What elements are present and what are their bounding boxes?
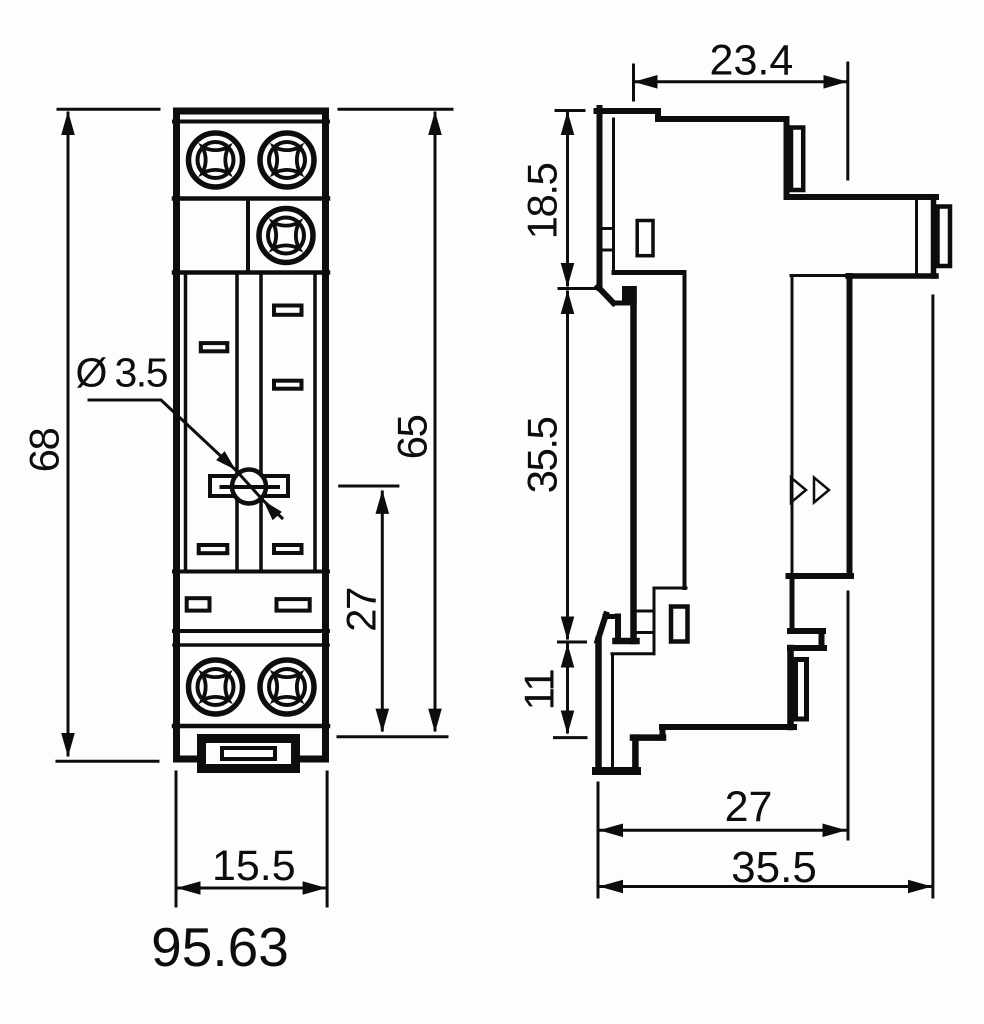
middle channel vertical x261 [259, 273, 263, 572]
svg-text:27: 27 [725, 783, 773, 831]
svg-text:15.5: 15.5 [212, 842, 296, 890]
svg-text:35.5: 35.5 [731, 843, 817, 892]
hook right block [622, 286, 637, 306]
leader arrowhead lower-right [259, 496, 282, 520]
11 bottom extension [555, 736, 587, 739]
terminal block bottom thin [791, 274, 848, 277]
slot S4 bottom-left of middle section [199, 545, 228, 553]
dimension line 68 [67, 113, 70, 755]
18.5/35.5 boundary extension [559, 287, 596, 290]
section line below screw row 2 [174, 270, 328, 275]
side top edge right [658, 116, 787, 122]
bottom 27 extension right [847, 592, 850, 839]
foot outer wall [595, 640, 602, 771]
svg-text:95.63: 95.63 [151, 916, 289, 978]
extension line bottom-left [57, 760, 158, 763]
right wall mid vertical [847, 276, 853, 576]
slot S7 lower section right [277, 599, 310, 611]
screw B row1 right [260, 133, 314, 187]
18.5 top extension [556, 109, 584, 112]
screw D row3 left [189, 660, 243, 714]
side left wall chamfer [598, 287, 614, 303]
direction arrow triangle 1 [791, 478, 806, 503]
section line y645 [174, 643, 328, 647]
right wall top vertical [784, 119, 790, 197]
foot inner thin vertical [611, 654, 614, 766]
step y733.5 [633, 734, 663, 741]
hook bottom [614, 301, 628, 306]
slot S3 right lower [274, 381, 302, 389]
side top edge left [597, 108, 659, 114]
leader line for hole diameter [89, 400, 282, 518]
foot hook bottom bar [616, 638, 637, 645]
extension line 65 bottom [338, 735, 447, 738]
svg-text:23.4: 23.4 [710, 37, 794, 85]
step up x662 [660, 727, 666, 738]
dimension line 65 [434, 113, 437, 730]
inner step vertical x654 [653, 589, 656, 654]
bottom tab slot [796, 660, 807, 720]
11 dimension line [566, 645, 569, 732]
23.4 extension left [632, 65, 635, 100]
step y576 [789, 573, 852, 579]
hole centerline dash [222, 485, 279, 489]
side top step [655, 111, 661, 119]
foot chamfer diagonal [598, 615, 607, 642]
middle channel vertical x237 [235, 273, 239, 572]
inner line near right end [915, 200, 918, 273]
bottom 35.5 dimension line [600, 885, 931, 888]
screw C row2 right [259, 209, 313, 263]
bottom tab wall [787, 648, 794, 727]
svg-text:11: 11 [516, 670, 563, 711]
screw E row3 right [260, 660, 314, 714]
terminal block right edge [931, 197, 937, 276]
23.4 extension right [846, 63, 849, 179]
cross slot bottom edges [210, 494, 288, 498]
side left outer wall (top) [597, 108, 603, 288]
top-right tab [791, 128, 803, 191]
notch top y631 [790, 628, 823, 634]
bottom DIN tab: outer black [197, 734, 300, 773]
mid-left main wall [630, 290, 637, 642]
foot right edge [632, 738, 639, 771]
foot bottom [596, 767, 637, 775]
svg-text:27: 27 [338, 588, 385, 632]
dimension 23.4 line [636, 80, 845, 83]
svg-text:68: 68 [21, 429, 68, 473]
vertical below step [790, 576, 795, 629]
svg-text:65: 65 [389, 416, 436, 460]
top band line [174, 120, 328, 124]
svg-text:35.5: 35.5 [519, 417, 566, 493]
inner horizontal y653.8 [612, 652, 654, 655]
front view body outline [177, 111, 326, 759]
18.5 dimension line [566, 113, 569, 285]
svg-text:3.5: 3.5 [115, 350, 168, 396]
35.5 dimension line [566, 292, 569, 638]
bottom DIN tab slot [222, 748, 275, 759]
cross slot top edges [210, 474, 288, 478]
slot S5 bottom-right of middle section [274, 545, 302, 553]
extension line 27 top [340, 485, 398, 488]
foot hook right [615, 617, 621, 642]
terminal block top edge [787, 194, 937, 200]
screw A row1 left [189, 133, 243, 187]
bottom DIN tab: inner white [206, 743, 291, 764]
direction arrow triangle 2 [814, 478, 829, 503]
leader arrowhead upper-left [216, 451, 240, 474]
clip rect R2 [671, 607, 688, 642]
slot S1 left middle [201, 343, 228, 351]
section line above lower slots [174, 570, 328, 574]
right end tab [938, 207, 951, 267]
35.5/11 boundary extension [559, 641, 586, 644]
clip rect R1 [637, 221, 653, 256]
inner long vertical x683 [683, 273, 687, 589]
foot hook top [605, 614, 619, 619]
dimension 15.5 extension lines [176, 772, 327, 906]
middle section vertical x185.5 [184, 273, 188, 572]
dimension line 27 left [381, 492, 384, 730]
inner right thin vertical [791, 276, 794, 574]
cross slot sides [210, 476, 288, 496]
extension line top-right [339, 108, 452, 111]
bottom 35.5 extension right [931, 296, 934, 897]
middle section vertical x315 [313, 273, 317, 572]
bottom 27 dimension line [600, 829, 845, 832]
slot S6 lower section left [187, 598, 210, 610]
bottom edge y725 [662, 724, 794, 730]
section line below screw row 1 [174, 196, 328, 201]
inner horizontal y588 [654, 587, 686, 590]
slot S2 right upper [274, 306, 302, 315]
section line above bottom band [174, 724, 328, 729]
wall ticks bottom-left [637, 611, 655, 633]
notch bottom y648 [790, 645, 824, 651]
ledge y272.5 [614, 270, 684, 275]
terminal block bottom thick [848, 273, 936, 279]
bottom 27 extension left [597, 783, 600, 897]
svg-text:18.5: 18.5 [519, 163, 566, 239]
center hole circle [232, 470, 266, 504]
notch right x821.5 [819, 631, 825, 648]
dimension line 15.5 [176, 887, 327, 890]
svg-text:Ø: Ø [76, 350, 108, 396]
section line y631 [174, 629, 328, 633]
wall ticks top-left [603, 229, 614, 251]
inner wall thin (top-left) [612, 119, 615, 272]
row2 divider [246, 199, 250, 273]
extension line top-left [58, 108, 159, 111]
